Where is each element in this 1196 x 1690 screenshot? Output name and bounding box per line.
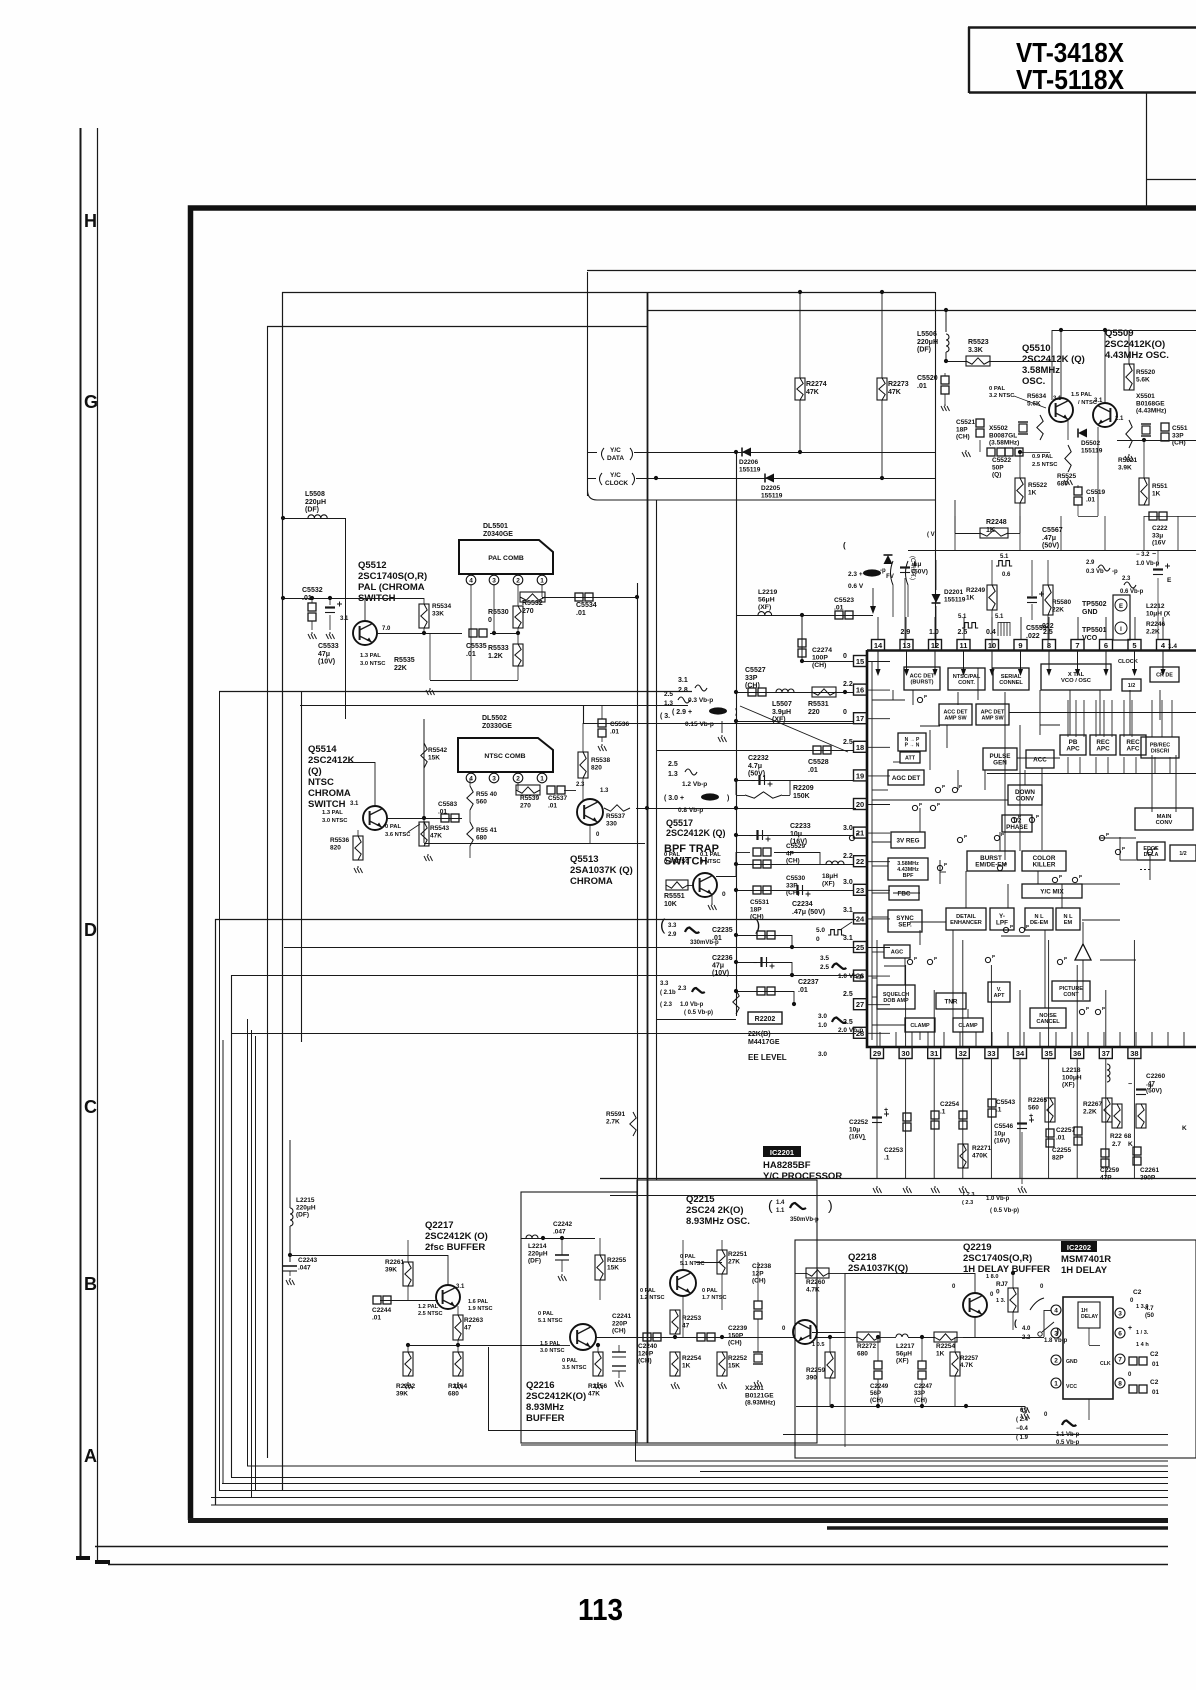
svg-text:R2267: R2267 [1083,1101,1103,1108]
svg-text:1.6 PAL: 1.6 PAL [468,1299,489,1305]
svg-text:0 PAL: 0 PAL [702,1288,718,1294]
svg-text:(10V): (10V) [318,659,335,666]
svg-text:(16V): (16V) [994,1138,1010,1145]
svg-text:35: 35 [1044,1049,1052,1058]
svg-text:(50V): (50V) [1042,543,1059,550]
svg-text:1.5 PAL: 1.5 PAL [1071,392,1092,398]
svg-text:C2260: C2260 [1146,1073,1166,1080]
svg-text:8.93MHz OSC.: 8.93MHz OSC. [686,1216,750,1227]
svg-text:P: P [944,862,947,867]
svg-text:680: 680 [857,1350,868,1357]
svg-text:EE LEVEL: EE LEVEL [748,1053,787,1062]
svg-text:DL5502: DL5502 [482,715,507,722]
svg-text:C5543: C5543 [996,1099,1016,1106]
svg-text:.01: .01 [917,383,927,390]
svg-text:820: 820 [330,844,341,851]
svg-text:150K: 150K [793,793,810,800]
svg-text:.01: .01 [798,987,808,994]
svg-text:10μ: 10μ [790,831,802,838]
svg-text:2.7K: 2.7K [606,1118,620,1125]
svg-text:1H DELAY BUFFER: 1H DELAY BUFFER [963,1264,1050,1275]
svg-text:IC2201: IC2201 [770,1148,794,1157]
svg-text:R5543: R5543 [430,825,450,832]
svg-text:2: 2 [1054,1358,1058,1365]
svg-text:47P: 47P [1100,1174,1112,1181]
svg-text:5.1: 5.1 [1000,554,1009,560]
svg-text:1.3 PAL: 1.3 PAL [322,810,343,816]
svg-text:C2261: C2261 [1140,1167,1160,1174]
svg-text:C5527: C5527 [745,667,766,674]
svg-text:(DF): (DF) [305,507,319,514]
svg-text:−: − [1128,1081,1132,1088]
svg-text:8: 8 [1047,641,1051,650]
svg-text:+: + [1128,1325,1132,1332]
svg-text:(CH): (CH) [812,662,826,669]
svg-text:C2259: C2259 [1100,1167,1120,1174]
svg-text:DELAY: DELAY [1081,1314,1099,1320]
svg-text:R5536: R5536 [330,837,350,844]
svg-text:L2218: L2218 [1062,1067,1081,1074]
svg-text:0.3 Vb-p: 0.3 Vb-p [688,697,713,704]
svg-text:FBC: FBC [898,890,911,897]
svg-text:56P: 56P [870,1390,881,1397]
svg-text:SWITCH: SWITCH [308,799,346,810]
svg-text:0 PAL: 0 PAL [385,824,401,830]
svg-text:(XF): (XF) [758,604,771,611]
svg-text:1K: 1K [682,1362,691,1369]
svg-text:C5559: C5559 [1026,625,1047,632]
svg-text:18μH: 18μH [822,873,838,880]
svg-text:2SC2412K (O): 2SC2412K (O) [425,1231,488,1242]
svg-text:0 PAL: 0 PAL [538,1311,554,1317]
svg-text:C5530: C5530 [786,875,806,882]
svg-text:2.5: 2.5 [843,1019,853,1026]
svg-text:3.1: 3.1 [1094,398,1103,404]
svg-text:2.7: 2.7 [1112,1141,1121,1148]
svg-text:R2272: R2272 [857,1343,877,1350]
svg-text:1.0 Vb-p: 1.0 Vb-p [1136,561,1160,567]
svg-text:R2274: R2274 [806,381,827,388]
svg-text:(: ( [1014,1318,1017,1328]
svg-text:37: 37 [1102,1049,1110,1058]
svg-text:2.5: 2.5 [843,739,853,746]
svg-text:5.0: 5.0 [816,927,825,934]
svg-text:150P: 150P [728,1332,744,1339]
svg-text:.047: .047 [553,1228,566,1235]
svg-text:AFC: AFC [1127,746,1140,753]
svg-text:B: B [84,1274,97,1294]
svg-text:0: 0 [996,1289,1000,1296]
svg-text:47K: 47K [430,832,442,839]
svg-text:(Q): (Q) [308,766,322,777]
svg-text:X TAL: X TAL [1068,672,1085,678]
svg-text:C2234: C2234 [792,901,813,908]
svg-text:MAIN: MAIN [1157,814,1172,820]
svg-text:0.6: 0.6 [1002,572,1011,578]
svg-text:E: E [1167,577,1172,584]
svg-text:D2206: D2206 [739,459,759,466]
svg-text:.047: .047 [298,1264,311,1271]
svg-text:(CH): (CH) [728,1340,742,1347]
svg-text:3: 3 [1054,1331,1058,1338]
svg-text:Y/C: Y/C [610,472,621,479]
svg-text:1: 1 [540,578,544,585]
svg-text:( V: ( V [927,532,935,538]
svg-text:CHROMA: CHROMA [570,876,613,887]
svg-text:R2251: R2251 [728,1251,748,1258]
svg-text:−: − [1152,551,1156,558]
svg-text:X5502: X5502 [989,425,1008,432]
svg-text:560: 560 [1028,1104,1039,1111]
svg-text:1.2K: 1.2K [488,653,503,660]
svg-text:1.2 Vb-p: 1.2 Vb-p [682,781,707,788]
svg-text:IC2202: IC2202 [1067,1243,1091,1252]
svg-text:R5537: R5537 [606,813,626,820]
svg-text:38: 38 [1130,1049,1138,1058]
svg-text:2: 2 [516,776,520,783]
svg-text:C5535: C5535 [466,643,487,650]
svg-text:20: 20 [856,800,864,809]
svg-text:820: 820 [591,764,602,771]
svg-text:3.1: 3.1 [843,935,853,942]
svg-text:1H DELAY: 1H DELAY [1061,1265,1108,1276]
svg-text:33K: 33K [432,610,444,617]
svg-text:30: 30 [901,1049,909,1058]
svg-text:7.0: 7.0 [382,626,391,632]
svg-text:4.43MHz OSC.: 4.43MHz OSC. [1105,350,1169,361]
svg-text:( 3.: ( 3. [660,713,670,720]
svg-text:(XF): (XF) [822,880,835,887]
svg-text:CR DE: CR DE [1156,672,1173,678]
svg-text:(CH): (CH) [870,1397,883,1404]
svg-text:(50V): (50V) [912,568,928,575]
svg-text:1.1: 1.1 [776,1208,785,1214]
svg-text:ATT: ATT [905,755,916,761]
svg-text:390P: 390P [1140,1174,1156,1181]
svg-text:+: + [884,1107,888,1114]
svg-text:L5508: L5508 [305,491,325,498]
svg-text:Q2216: Q2216 [526,1380,555,1391]
svg-text:.1μ: .1μ [912,561,921,568]
svg-text:2SC2412K(O): 2SC2412K(O) [526,1391,586,1402]
svg-text:D: D [84,920,97,940]
svg-text:1K: 1K [1028,489,1037,496]
svg-text:P: P [1036,814,1039,819]
svg-text:P: P [964,834,967,839]
svg-text:2.2: 2.2 [843,681,853,688]
svg-text:3.1: 3.1 [678,677,688,684]
svg-text:R5530: R5530 [488,609,509,616]
svg-text:C5534: C5534 [576,602,597,609]
svg-text:0.4 NTSC: 0.4 NTSC [664,859,690,865]
svg-text:(Q): (Q) [992,472,1001,479]
svg-text:R5591: R5591 [606,1111,626,1118]
svg-text:330: 330 [606,820,617,827]
svg-text:R5534: R5534 [432,603,452,610]
svg-text:R2209: R2209 [793,785,814,792]
svg-text:C5567: C5567 [1042,527,1063,534]
svg-text:C2239: C2239 [728,1325,748,1332]
svg-text:1K: 1K [1152,490,1161,497]
svg-text:1.3: 1.3 [668,771,678,778]
svg-text:120P: 120P [638,1350,654,1357]
svg-text:OSC.: OSC. [1022,376,1045,387]
svg-text:5: 5 [1132,641,1136,650]
svg-text:R2202: R2202 [755,1016,776,1023]
svg-text:ACC: ACC [1033,756,1047,763]
svg-text:.01: .01 [1086,496,1095,503]
svg-text:.01: .01 [610,728,619,735]
svg-text:0 PAL: 0 PAL [989,386,1005,392]
svg-text:−0.4: −0.4 [1016,1426,1029,1432]
svg-text:27K: 27K [728,1258,740,1265]
svg-text:2.0 Vb-p: 2.0 Vb-p [838,1027,863,1034]
svg-text:CHROMA: CHROMA [308,788,351,799]
svg-text:C2242: C2242 [553,1221,573,1228]
svg-text:CLOCK: CLOCK [605,480,628,487]
svg-text:3.0: 3.0 [843,825,853,832]
svg-text:−: − [751,778,755,785]
svg-text:1.4: 1.4 [776,1200,785,1206]
svg-text:(XF): (XF) [1062,1082,1075,1089]
svg-text:R5542: R5542 [428,747,448,754]
svg-text:C5519: C5519 [1086,489,1106,496]
svg-text:DISCRI: DISCRI [1151,748,1170,754]
svg-text:4.7K: 4.7K [960,1362,974,1369]
svg-text:3.5 NTSC: 3.5 NTSC [562,1365,587,1371]
svg-text:P: P [992,954,995,959]
svg-text:CONT.: CONT. [958,680,975,686]
svg-text:C2252: C2252 [849,1119,869,1126]
svg-text:2.9: 2.9 [901,629,911,636]
svg-text:Q5512: Q5512 [358,560,387,571]
svg-text:2SC24 2K(O): 2SC24 2K(O) [686,1205,744,1216]
svg-text:5.6K: 5.6K [1136,376,1150,383]
svg-text:LPF: LPF [996,920,1008,927]
svg-text:27: 27 [856,1000,864,1009]
svg-text:47μ: 47μ [712,963,724,970]
svg-text:R2265: R2265 [1028,1097,1048,1104]
svg-text:0 PAL: 0 PAL [562,1358,578,1364]
svg-text:C2: C2 [1150,1351,1159,1358]
svg-text:33P: 33P [745,675,758,682]
svg-text:(CH): (CH) [752,1278,766,1285]
svg-text:270: 270 [520,802,531,809]
svg-text:C2274: C2274 [812,647,832,654]
svg-text:R5539: R5539 [520,795,540,802]
svg-text:5.6K: 5.6K [1027,400,1041,407]
svg-text:C: C [84,1097,97,1117]
svg-text:( 2.3: ( 2.3 [660,1002,673,1008]
svg-text:1 / 3.: 1 / 3. [1136,1330,1149,1336]
svg-text:19: 19 [856,771,864,780]
svg-text:390: 390 [806,1375,817,1382]
svg-text:R2273: R2273 [888,381,909,388]
svg-text:VCO / OSC: VCO / OSC [1061,678,1092,684]
svg-text:(: ( [843,541,846,550]
svg-text:2.8: 2.8 [678,687,688,694]
svg-text:H: H [84,211,97,231]
svg-text:2SC2412K: 2SC2412K [308,755,355,766]
svg-text:1 8.0: 1 8.0 [986,1274,998,1280]
svg-text:3.9K: 3.9K [1118,464,1132,471]
svg-text:SEP.: SEP. [898,922,912,929]
svg-text:G: G [84,392,98,412]
svg-text:PAL COMB: PAL COMB [488,555,524,562]
svg-text:P: P [856,832,859,837]
svg-text:P: P [1122,846,1125,851]
svg-text:.1: .1 [996,1106,1002,1113]
svg-text:C5546: C5546 [994,1123,1014,1130]
svg-text:.47μ (50V): .47μ (50V) [792,909,825,916]
svg-text:2SA1037K(Q): 2SA1037K(Q) [848,1263,908,1274]
svg-text:220μH: 220μH [296,1204,316,1211]
svg-text:4: 4 [469,578,473,585]
svg-text:AMP SW: AMP SW [981,715,1004,721]
svg-text:Q5510: Q5510 [1022,343,1051,354]
svg-text:C5537: C5537 [548,795,568,802]
svg-text:220μH: 220μH [528,1250,548,1257]
svg-text:M4417GE: M4417GE [748,1039,780,1046]
svg-text:P: P [1064,956,1067,961]
svg-text:( 2.4: ( 2.4 [1016,1417,1029,1423]
svg-text:(: ( [768,1197,773,1213]
svg-text:2.3: 2.3 [678,986,687,992]
svg-text:0: 0 [843,709,847,716]
svg-text:22K(B): 22K(B) [748,1031,771,1038]
svg-text:10K: 10K [664,901,677,908]
svg-text:C2232: C2232 [748,755,769,762]
svg-text:2.5 NTSC: 2.5 NTSC [1032,462,1058,468]
svg-text:R2249: R2249 [966,587,986,594]
svg-text:1/2: 1/2 [1128,683,1136,689]
svg-text:DE-EM: DE-EM [1030,920,1048,926]
svg-text:100P: 100P [812,655,828,662]
svg-text:C2244: C2244 [372,1307,392,1314]
svg-text:2.5: 2.5 [820,964,829,971]
svg-text:C2253: C2253 [884,1147,904,1154]
svg-text:6: 6 [1104,641,1108,650]
svg-text:Y/C: Y/C [610,447,621,454]
svg-text:3: 3 [492,776,496,783]
svg-text:22K: 22K [1052,606,1064,613]
svg-text:C2241: C2241 [612,1313,632,1320]
svg-text:2.2: 2.2 [1022,1335,1031,1341]
svg-text:2SC1740S(O,R): 2SC1740S(O,R) [963,1253,1032,1264]
svg-text:C2237: C2237 [798,979,819,986]
svg-text:C222: C222 [1152,525,1168,532]
svg-text:01: 01 [1152,1389,1159,1396]
svg-text:25: 25 [856,943,864,952]
svg-text:.01: .01 [548,802,557,809]
svg-text:TP5501: TP5501 [1082,627,1107,634]
svg-text:K: K [1182,1125,1187,1132]
svg-text:1K: 1K [986,527,995,534]
svg-text:1.3 PAL: 1.3 PAL [360,653,381,659]
svg-text:10μH (X: 10μH (X [1146,610,1171,617]
svg-text:-p: -p [1112,569,1118,575]
svg-text:EM: EM [1064,920,1073,926]
svg-text:R2248: R2248 [986,519,1007,526]
svg-text:34: 34 [1016,1049,1025,1058]
svg-text:22K: 22K [394,665,407,672]
svg-text:47K: 47K [588,1391,600,1398]
svg-text:3.3K: 3.3K [968,347,983,354]
svg-text:CLOCK: CLOCK [1118,659,1138,665]
svg-text:TNR: TNR [945,998,958,1005]
svg-text:C2: C2 [1133,1289,1142,1296]
svg-text:MSM7401R: MSM7401R [1061,1254,1111,1265]
svg-text:4.7: 4.7 [1145,1305,1154,1312]
svg-text:2.9: 2.9 [1086,560,1095,566]
svg-text:): ) [828,1197,833,1213]
svg-text:R2260: R2260 [806,1279,826,1286]
svg-text:R2252: R2252 [728,1355,748,1362]
svg-text:18P: 18P [750,906,762,913]
svg-text:0 PAL: 0 PAL [664,852,680,858]
svg-text:3.3: 3.3 [668,923,677,929]
svg-text:(CH): (CH) [786,858,800,865]
svg-text:2: 2 [516,578,520,585]
svg-text:0.15 Vb-p: 0.15 Vb-p [685,721,714,728]
svg-text:P: P [1154,846,1157,851]
svg-text:0: 0 [843,653,847,660]
svg-text:RJ7: RJ7 [996,1281,1008,1288]
svg-text:47K: 47K [888,389,901,396]
svg-text:(CH): (CH) [914,1397,927,1404]
svg-text:680: 680 [448,1391,459,1398]
svg-text:CONNEL: CONNEL [999,680,1023,686]
svg-text:2fsc BUFFER: 2fsc BUFFER [425,1242,485,1253]
svg-text:(50V): (50V) [748,771,765,778]
svg-text:C5533: C5533 [318,643,339,650]
svg-text:14: 14 [874,641,883,650]
svg-text:P: P [942,784,945,789]
svg-text:1.0 Vb-p: 1.0 Vb-p [838,973,863,980]
svg-text:X5501: X5501 [1136,393,1155,400]
svg-text:R2254: R2254 [936,1343,956,1350]
svg-text:155119: 155119 [761,492,783,499]
svg-text:ENHANCER: ENHANCER [950,920,982,926]
svg-text:P: P [1018,814,1021,819]
svg-text:56μH: 56μH [896,1350,912,1357]
svg-text:C5531: C5531 [750,899,770,906]
svg-text:1.5 PAL: 1.5 PAL [540,1341,561,1347]
svg-text:2.3: 2.3 [1122,576,1131,582]
svg-text:1 0.5: 1 0.5 [812,1342,824,1348]
svg-text:1 2.3: 1 2.3 [962,1192,974,1198]
svg-text:C2235: C2235 [712,927,733,934]
svg-text:APC: APC [1096,746,1110,753]
svg-text:P: P [959,784,962,789]
svg-text:7: 7 [1075,641,1079,650]
svg-text:1: 1 [540,776,544,783]
svg-text:E: E [1119,604,1123,610]
svg-text:DL5501: DL5501 [483,523,508,530]
svg-text:APC: APC [1066,746,1080,753]
svg-text:VCC: VCC [1066,1384,1077,1390]
svg-text:(: ( [660,917,666,934]
svg-text:155119: 155119 [1081,447,1103,454]
svg-text:2.1: 2.1 [1115,416,1124,422]
svg-text:(DF): (DF) [296,1212,309,1219]
svg-text:2.2K: 2.2K [1083,1108,1097,1115]
svg-text:BUFFER: BUFFER [526,1413,565,1424]
svg-text:1.7 NTSC: 1.7 NTSC [702,1295,727,1301]
svg-text:P: P [1079,874,1082,879]
svg-text:0: 0 [722,891,726,898]
svg-text:10μ: 10μ [994,1130,1005,1137]
